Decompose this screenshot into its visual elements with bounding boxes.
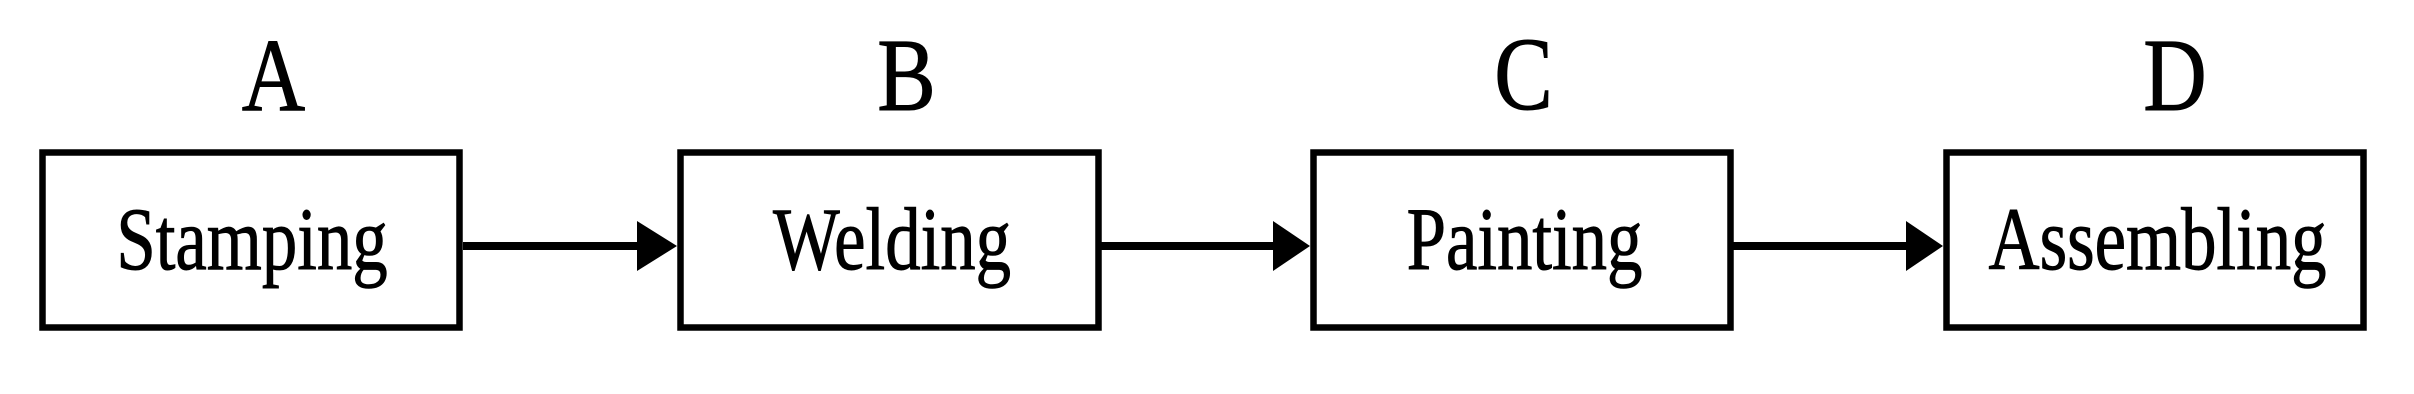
svg-text:D: D	[2143, 17, 2206, 133]
arrow A to B	[463, 221, 677, 271]
arrow C to D	[1733, 221, 1943, 271]
svg-text:A: A	[242, 17, 305, 133]
arrow B to C	[1101, 221, 1310, 271]
svg-text:Welding: Welding	[773, 190, 1011, 289]
svg-text:Stamping: Stamping	[116, 190, 387, 289]
svg-text:Assembling: Assembling	[1989, 190, 2327, 289]
box B Welding	[681, 153, 1099, 328]
box A Stamping	[43, 153, 460, 328]
svg-text:B: B	[877, 17, 936, 133]
svg-text:Painting: Painting	[1407, 190, 1643, 289]
svg-text:C: C	[1494, 16, 1553, 132]
box C Painting	[1314, 153, 1731, 328]
box D Assembling	[1947, 153, 2364, 328]
